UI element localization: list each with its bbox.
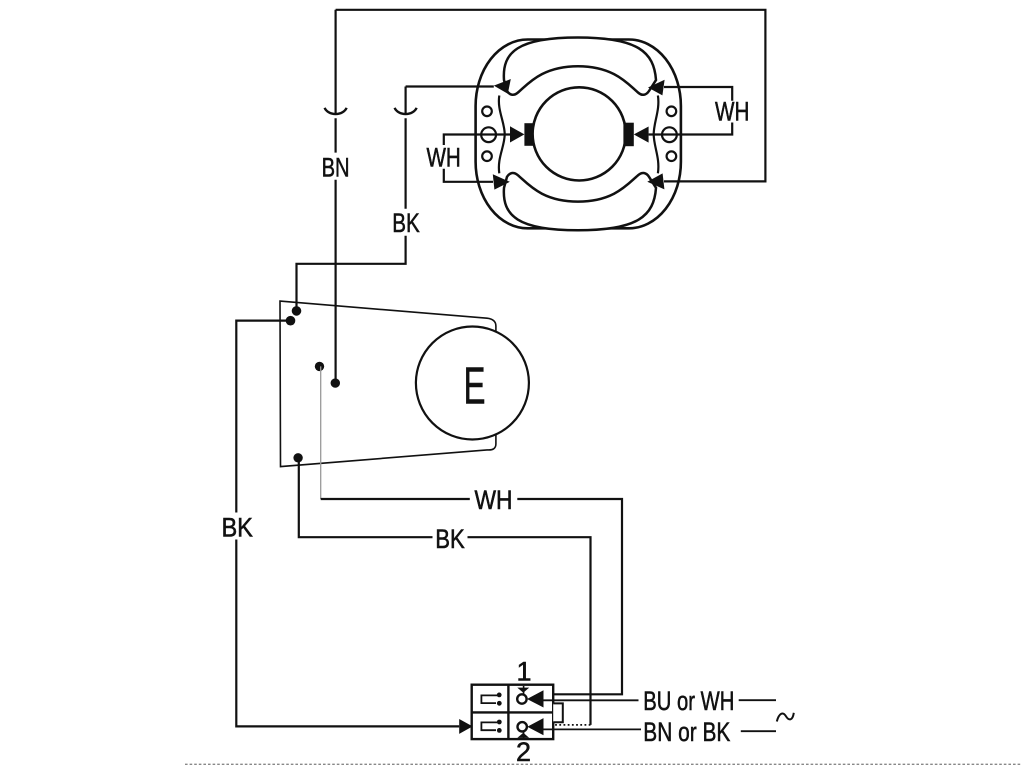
right brush block	[623, 123, 633, 147]
left flange hole small bottom	[482, 151, 492, 161]
wire BK left: dot B to left rail down to connector arrow	[236, 321, 459, 727]
wire BK from dot E down and across to terminal 2	[299, 458, 591, 725]
wire BK vertical lower, jog left and down to dot A	[297, 118, 406, 311]
connector feed arrow into block	[459, 719, 472, 734]
E-magnet trapezoid plate	[280, 301, 496, 467]
terminal pin 1 circle	[517, 694, 526, 703]
terminal pin 1 arrow	[527, 690, 544, 707]
wire to BN or BK label	[544, 728, 642, 730]
svg-text:BN or BK: BN or BK	[643, 717, 730, 747]
wire WH horizontal to terminal 1	[321, 499, 622, 694]
junction dot E	[293, 453, 302, 462]
bottom page rule dotted	[185, 763, 1022, 765]
wire BN vertical lower to dot D	[335, 118, 337, 383]
armature circle	[533, 87, 626, 180]
connector break on BK wire	[395, 108, 417, 114]
dash after BU or WH	[739, 699, 776, 701]
wire BN vertical upper	[335, 10, 337, 114]
wire BK vertical upper	[405, 87, 407, 115]
wire WH from dot C down (thin gray)	[320, 366, 322, 499]
terminal spade dots cell 1	[497, 693, 502, 698]
field coil bottom band	[504, 173, 656, 230]
svg-text:1: 1	[517, 656, 532, 686]
wire top loop (BN to right side, down to lower coil arrow)	[336, 10, 766, 182]
left flange hole small top	[482, 107, 492, 117]
terminal spade dots cell 2	[497, 720, 502, 725]
right flange waist line	[654, 96, 659, 174]
terminal spade cell 1	[481, 695, 497, 703]
right flange hole small top	[667, 107, 677, 117]
coil arrow top-right	[648, 80, 665, 96]
connector block horizontal divider	[472, 711, 554, 713]
AC tilde mark	[777, 713, 794, 722]
right flange hole middle	[662, 127, 677, 142]
svg-text:2: 2	[516, 737, 531, 767]
svg-text:BK: BK	[435, 524, 465, 554]
svg-text:BU or WH: BU or WH	[643, 686, 734, 716]
left brush spring arrow	[510, 126, 524, 142]
coil arrow top-left	[494, 79, 511, 94]
E-magnet circle	[416, 327, 529, 440]
left flange hole middle	[481, 127, 496, 142]
wire WH right bracket: top coil arrow to right brush	[649, 87, 733, 135]
terminal pin 2 entry mark	[523, 732, 525, 739]
coil arrow bottom-right	[647, 173, 664, 189]
right brush spring arrow	[634, 127, 649, 143]
wire to BU or WH label	[544, 699, 639, 701]
connector block vertical divider	[507, 685, 509, 739]
right flange hole small bottom	[667, 151, 677, 161]
svg-text:WH: WH	[715, 97, 749, 127]
terminal pin 1 entry mark	[523, 686, 525, 694]
wire WH left bracket to brush and lower coil arrow	[444, 135, 510, 182]
field coil top band	[504, 38, 656, 95]
connector latch tab	[553, 703, 563, 722]
wire BK horizontal to top-left coil arrow	[406, 85, 494, 87]
svg-text:WH: WH	[426, 142, 460, 172]
terminal pin 2 arrow	[527, 718, 543, 735]
svg-text:E: E	[464, 358, 486, 416]
connector block outline	[472, 685, 554, 739]
svg-text:BK: BK	[221, 513, 253, 543]
junction dot D	[331, 378, 340, 387]
coil arrow bottom-left	[493, 174, 510, 189]
svg-text:BN: BN	[322, 152, 350, 182]
connector break on BN wire	[325, 108, 347, 114]
stator housing outline	[476, 40, 681, 229]
svg-text:WH: WH	[475, 485, 513, 515]
terminal pin 2 circle	[518, 722, 527, 731]
dash after BN or BK	[741, 730, 776, 732]
junction dot C	[315, 362, 324, 371]
junction dot B	[286, 316, 296, 326]
svg-text:BK: BK	[392, 208, 420, 238]
left flange waist line	[499, 96, 505, 174]
wire dotted into terminal 2	[544, 724, 591, 726]
left brush block	[524, 123, 533, 146]
junction dot A	[292, 306, 302, 316]
terminal spade cell 2	[481, 722, 497, 730]
